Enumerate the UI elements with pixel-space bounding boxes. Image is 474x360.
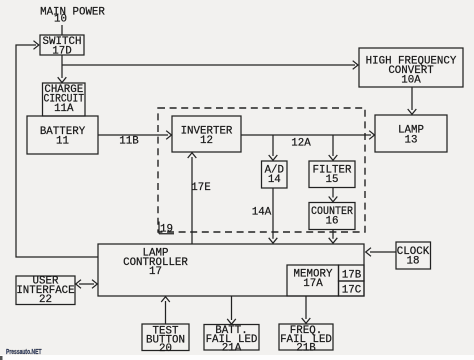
wire: branch down to filter — [329, 135, 338, 160]
batt fail led 21A — [204, 325, 259, 351]
register 17B — [339, 265, 365, 281]
svg-text:21A: 21A — [222, 343, 242, 355]
svg-text:18: 18 — [407, 256, 420, 268]
bottom white strip — [0, 355, 474, 360]
wire: switch bottom stub — [61, 55, 63, 65]
node 19 corner mark — [159, 222, 174, 234]
wire 14A: A/D to lamp controller — [269, 188, 278, 243]
svg-text:11A: 11A — [54, 103, 74, 115]
wire feedback: controller left to switch — [16, 41, 98, 257]
counter 16 — [309, 203, 355, 230]
wire 11B: battery to inverter — [98, 131, 172, 140]
wire: switch to high frequency convert — [62, 61, 358, 70]
svg-text:17D: 17D — [52, 46, 71, 58]
inverter 12 — [172, 116, 241, 152]
svg-text:MAIN POWER: MAIN POWER — [40, 7, 105, 19]
svg-text:10A: 10A — [401, 75, 421, 87]
wire: switch to charge circuit — [58, 65, 67, 83]
memory 17A — [287, 265, 339, 296]
wire: filter to counter — [329, 188, 338, 202]
svg-text:19: 19 — [160, 224, 173, 236]
svg-text:11: 11 — [56, 136, 69, 148]
high frequency convert 10A — [359, 48, 463, 87]
wire: clock to lamp controller — [366, 248, 396, 257]
charge circuit 11A — [43, 83, 86, 116]
svg-text:12: 12 — [200, 135, 213, 147]
svg-text:14: 14 — [268, 174, 281, 186]
wire: lead line from label 10 to switch top — [61, 25, 63, 35]
svg-text:21B: 21B — [296, 343, 316, 355]
test button 20 — [142, 324, 189, 351]
A/D 14 — [262, 161, 288, 188]
svg-text:14A: 14A — [252, 207, 272, 219]
clock 18 — [396, 242, 431, 269]
register 17C — [339, 281, 365, 296]
battery 11 — [27, 116, 98, 154]
svg-text:15: 15 — [326, 174, 339, 186]
corner mark bottom-left — [0, 356, 3, 360]
filter 15 — [309, 161, 355, 188]
svg-text:17A: 17A — [303, 278, 323, 290]
freq fail led 21B — [279, 324, 333, 350]
svg-text:12A: 12A — [291, 138, 311, 150]
svg-text:17: 17 — [149, 266, 162, 278]
wire: test button to lamp controller — [161, 297, 170, 324]
svg-text:10: 10 — [54, 14, 67, 26]
lamp 13 — [375, 115, 447, 152]
wire: branch down to A/D — [269, 135, 278, 160]
svg-text:17E: 17E — [191, 182, 210, 194]
wire 12A: inverter to lamp — [241, 131, 375, 140]
svg-text:13: 13 — [405, 135, 418, 147]
svg-text:17C: 17C — [342, 285, 362, 297]
wire: counter to lamp controller — [329, 230, 338, 244]
wire: user interface to lamp controller (bidirectional) — [76, 280, 98, 289]
user interface 22 — [16, 276, 75, 305]
wire 17E: lamp controller to inverter — [188, 153, 197, 244]
dashed block 19 — [158, 108, 365, 232]
switch 17D — [40, 35, 84, 55]
svg-text:11B: 11B — [119, 136, 139, 148]
svg-text:Pressauto.NET: Pressauto.NET — [6, 349, 42, 356]
wire: high frequency convert to lamp — [408, 87, 417, 114]
wire: memory to freq fail led — [302, 296, 311, 323]
svg-text:20: 20 — [159, 343, 172, 355]
lamp controller 17 — [98, 244, 364, 296]
svg-text:22: 22 — [39, 294, 52, 306]
svg-text:17B: 17B — [342, 270, 362, 282]
wire: lamp controller to batt fail led — [227, 296, 236, 324]
svg-text:16: 16 — [326, 216, 339, 228]
